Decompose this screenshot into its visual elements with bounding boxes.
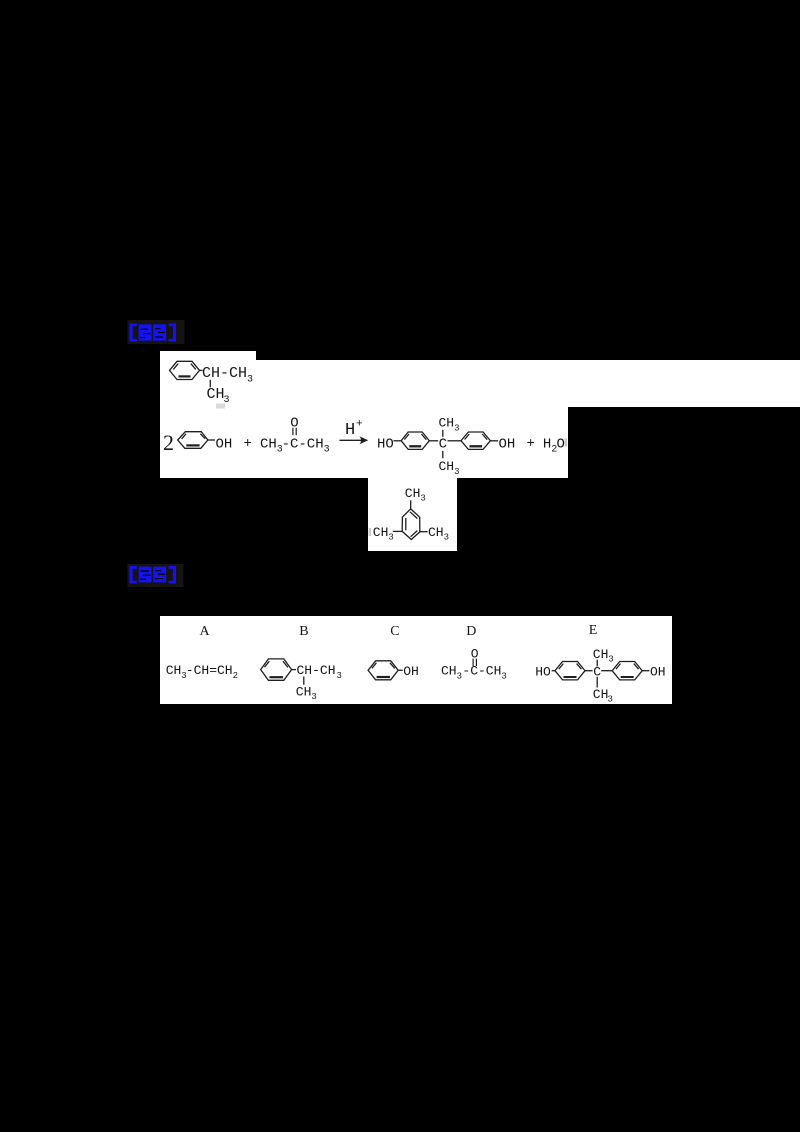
svg-text:-C-: -C- <box>282 437 307 453</box>
svg-text:OH: OH <box>403 664 419 679</box>
svg-text:O: O <box>557 437 565 453</box>
bond ring to CH <box>200 369 203 371</box>
bond E C to right ring <box>601 670 612 672</box>
bond CH to lower CH3 <box>209 380 211 388</box>
svg-text:3: 3 <box>247 375 253 386</box>
svg-text:3: 3 <box>454 467 459 477</box>
svg-text:CH: CH <box>593 687 609 702</box>
bond HO to left ring <box>394 440 402 442</box>
svg-text:CH: CH <box>307 437 324 453</box>
svg-text:H: H <box>543 437 551 453</box>
svg-text:O: O <box>290 416 298 432</box>
white panel: reaction equation <box>160 407 568 478</box>
gray tick after H2O <box>565 439 568 447</box>
benzene ring (phenol) <box>178 432 208 449</box>
benzene ring (cumene) <box>170 361 200 379</box>
svg-text:+: + <box>244 436 252 452</box>
svg-text:3: 3 <box>337 671 342 681</box>
bond left CH3 <box>393 530 402 532</box>
benzene ring (product left) <box>401 432 429 449</box>
svg-text:3: 3 <box>457 672 462 682</box>
svg-text:3: 3 <box>420 494 425 504</box>
svg-text:CH: CH <box>486 664 502 679</box>
bond B ring to CH <box>292 669 296 671</box>
blue label 1 glyphs <box>130 324 177 342</box>
benzene ring (option E left) <box>555 662 585 680</box>
gray artifact under box1 <box>216 404 225 409</box>
benzene ring (mesitylene) <box>402 509 420 540</box>
C=O double bond (acetone) <box>293 428 296 435</box>
svg-text:E: E <box>589 623 598 638</box>
svg-text:CH: CH <box>373 525 389 540</box>
bond E HO to left ring <box>552 670 555 672</box>
bond E right ring to OH <box>642 670 649 672</box>
svg-text:C: C <box>390 624 399 639</box>
svg-text:HO: HO <box>535 665 551 680</box>
reaction arrow <box>340 439 366 441</box>
bond C up to CH3 <box>442 430 444 437</box>
svg-text:3: 3 <box>388 533 393 543</box>
svg-text:3: 3 <box>444 533 449 543</box>
svg-text:CH: CH <box>166 663 182 678</box>
double bond inner lines (phenol) <box>182 434 206 439</box>
svg-text:CH: CH <box>207 386 225 403</box>
svg-text:D: D <box>466 624 476 639</box>
benzene ring (option C) <box>368 661 398 680</box>
svg-text:CH-CH: CH-CH <box>297 663 336 678</box>
blue label 2 glyphs <box>130 566 177 584</box>
svg-text:-CH=CH: -CH=CH <box>186 663 233 678</box>
blue label 1 background <box>128 320 185 344</box>
svg-text:C: C <box>439 437 447 453</box>
bond right CH3 <box>420 531 428 533</box>
double bond inner lines (mesitylene) <box>406 512 418 537</box>
svg-text:H: H <box>345 421 355 440</box>
svg-text:CH: CH <box>593 647 609 662</box>
svg-text:O: O <box>471 647 479 662</box>
svg-text:3: 3 <box>608 695 613 705</box>
svg-text:2: 2 <box>163 430 174 455</box>
bond left ring to C <box>429 440 438 442</box>
svg-text:3: 3 <box>324 445 330 456</box>
svg-text:+: + <box>527 436 535 452</box>
svg-text:CH: CH <box>296 685 312 700</box>
svg-text:3: 3 <box>608 655 613 665</box>
bond E C up <box>596 660 598 667</box>
svg-text:CH-CH: CH-CH <box>202 365 247 382</box>
benzene ring (option B) <box>261 659 292 680</box>
bond top CH3 to ring <box>410 500 412 509</box>
svg-text:CH: CH <box>439 459 455 474</box>
svg-text:CH: CH <box>405 486 421 501</box>
bond C down to CH3 <box>442 451 444 458</box>
white panel: mesitylene structure <box>368 478 457 551</box>
bond E left ring to C <box>585 670 593 672</box>
double bond inner lines (cumene ring) <box>173 364 196 370</box>
svg-text:OH: OH <box>216 437 233 453</box>
svg-text:OH: OH <box>499 437 516 453</box>
bond C ring to OH <box>398 669 403 671</box>
white panel: cumene structure box <box>160 351 256 407</box>
benzene ring (option E right) <box>612 662 642 680</box>
bond C to right ring <box>448 440 462 442</box>
svg-text:3: 3 <box>454 424 459 434</box>
svg-text:+: + <box>356 419 363 431</box>
blue label 2 background <box>128 564 184 587</box>
svg-text:CH: CH <box>260 437 277 453</box>
svg-text:-C-: -C- <box>462 664 485 679</box>
bond B CH to CH3 <box>303 677 305 685</box>
svg-text:B: B <box>299 624 308 639</box>
svg-text:3: 3 <box>311 692 316 702</box>
svg-text:2: 2 <box>233 671 238 681</box>
bond right ring to OH <box>490 440 498 442</box>
bond phenol ring to OH <box>208 439 215 441</box>
benzene ring (product right) <box>461 432 490 449</box>
option D C=O double bond <box>473 659 476 666</box>
svg-text:A: A <box>200 624 211 639</box>
svg-text:CH: CH <box>439 416 455 431</box>
svg-text:3: 3 <box>501 672 506 682</box>
svg-text:OH: OH <box>650 665 666 680</box>
svg-text:CH: CH <box>428 525 444 540</box>
white panel: options A-E <box>160 616 672 704</box>
white band: wide blank strip <box>160 360 800 407</box>
svg-text:CH: CH <box>441 664 457 679</box>
gray tick at mesitylene box edge <box>369 528 372 536</box>
svg-text:HO: HO <box>377 437 394 453</box>
bond E C down <box>596 677 598 688</box>
